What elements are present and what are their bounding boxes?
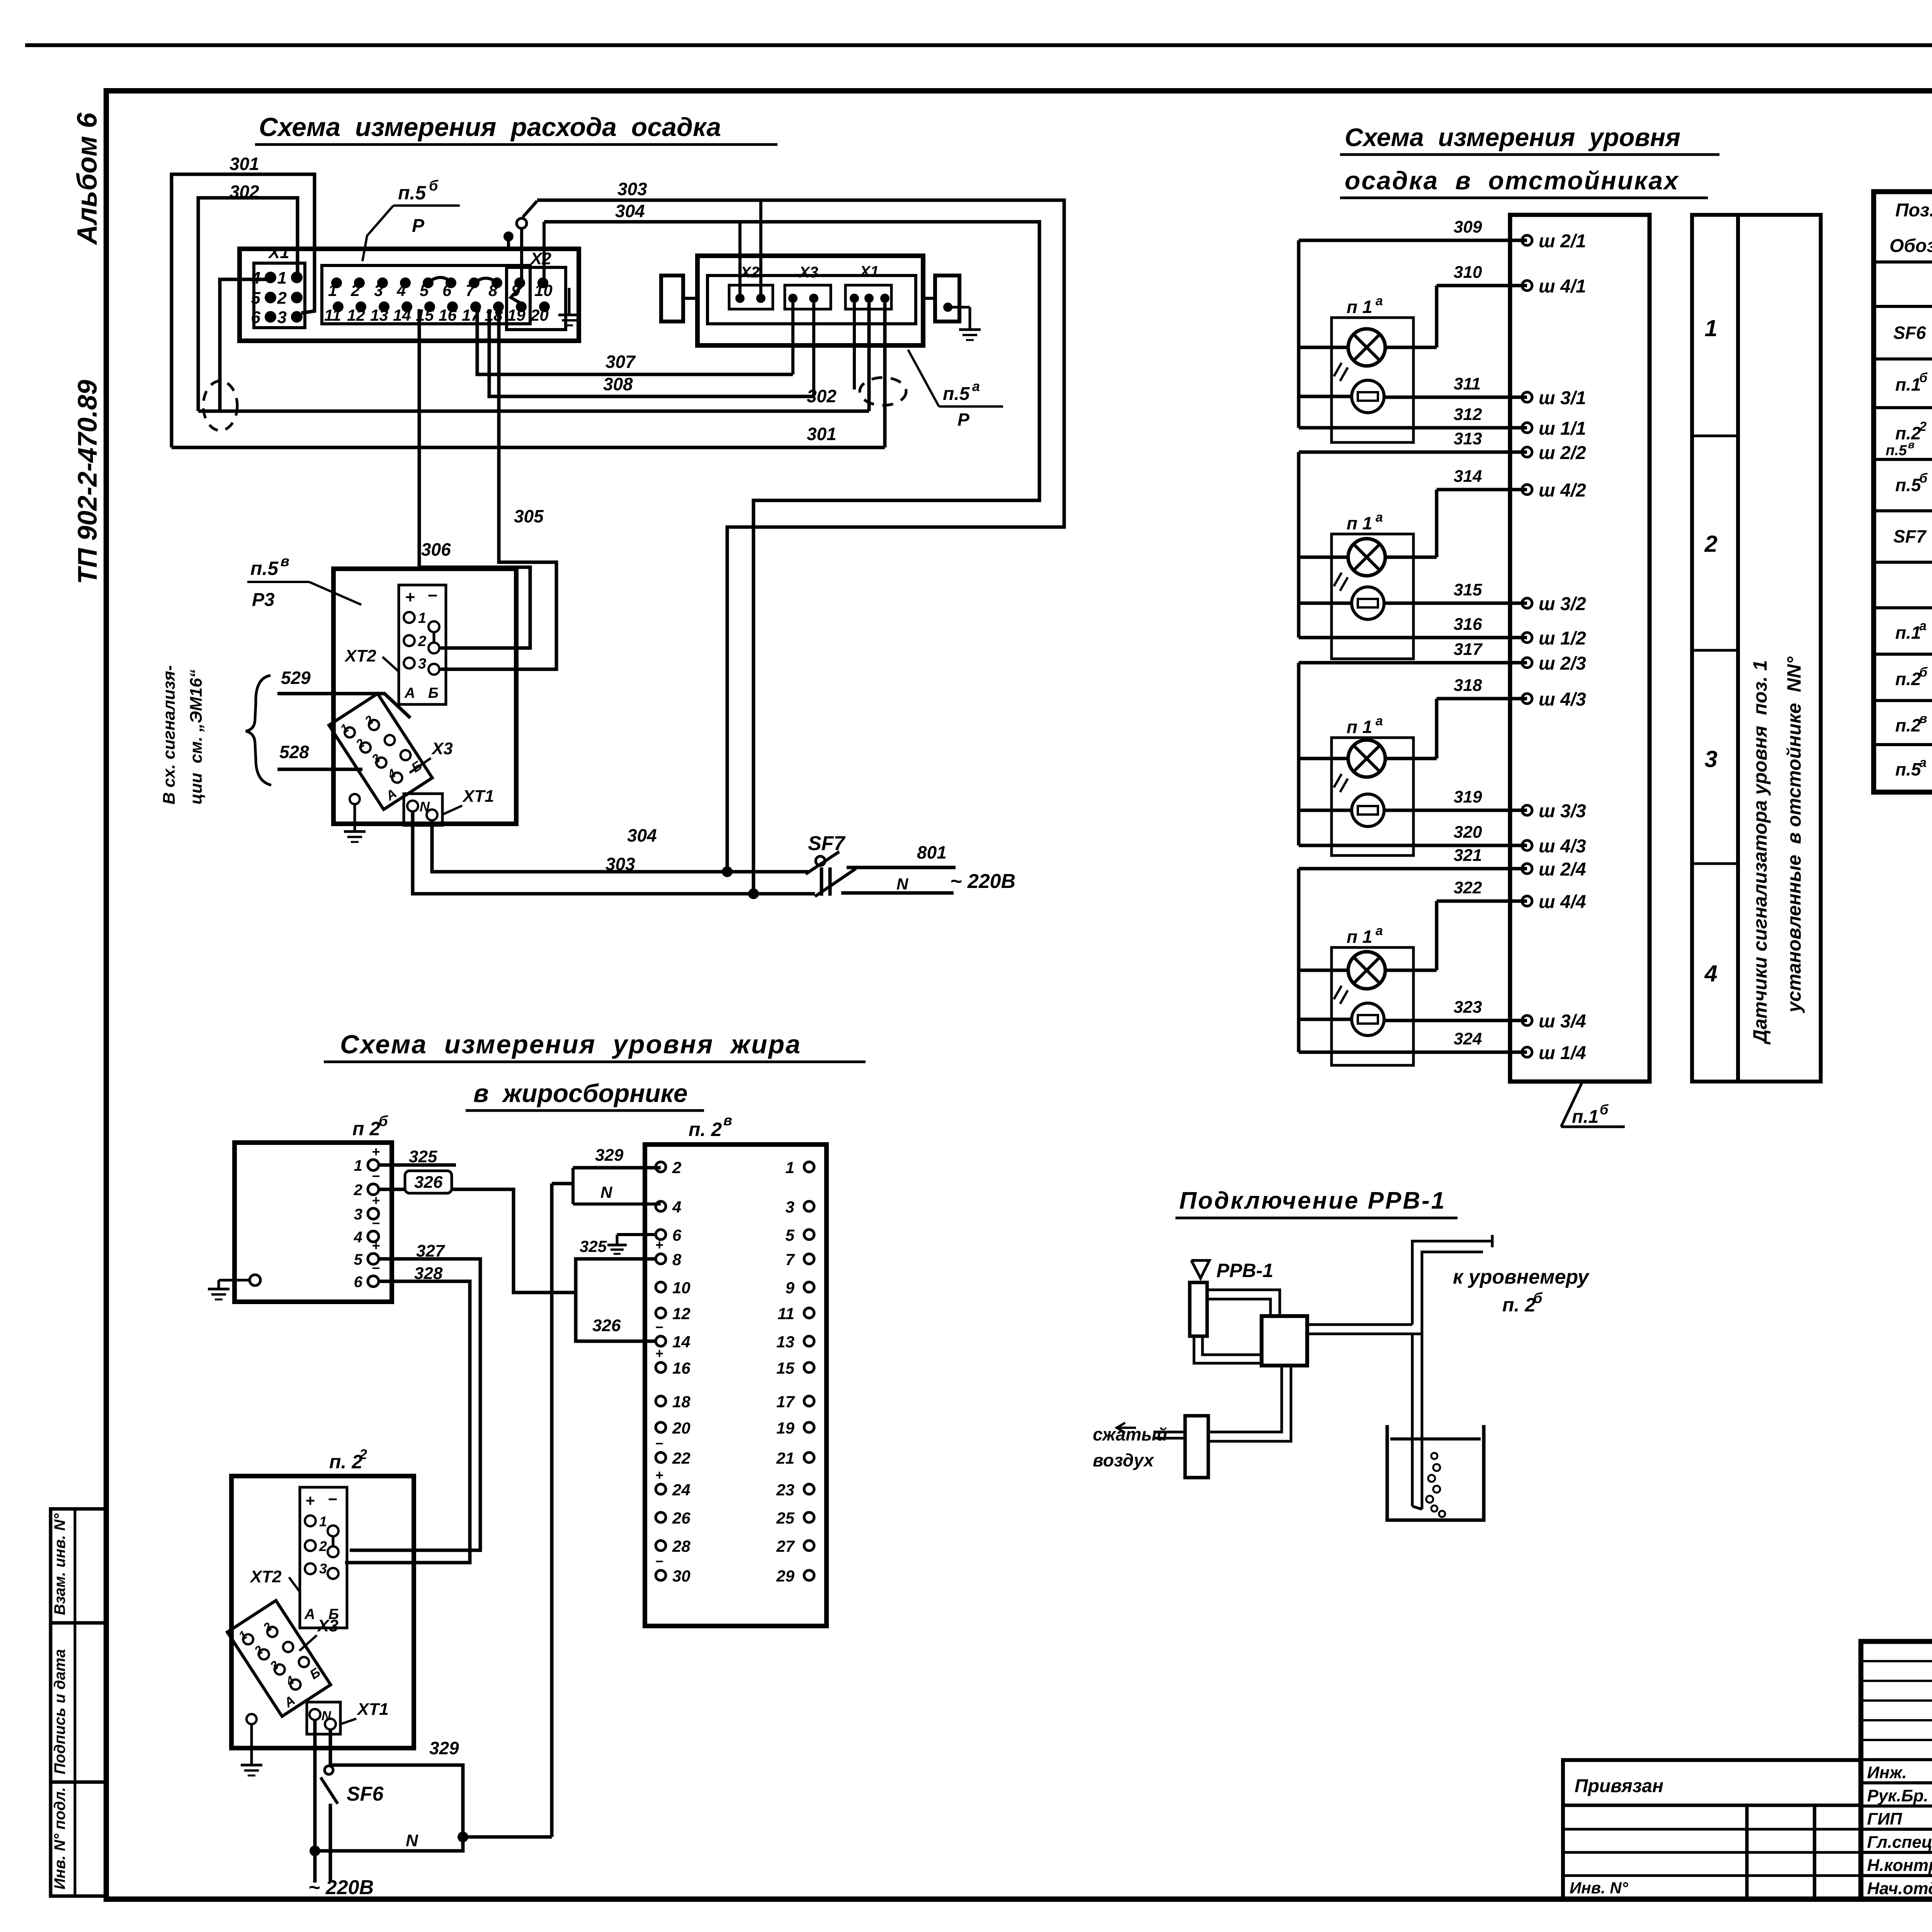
RRV-1 body bbox=[1190, 1282, 1207, 1336]
svg-text:329: 329 bbox=[429, 1738, 459, 1758]
lamp HL4 bbox=[1334, 952, 1385, 1004]
block p.2-2 body bbox=[231, 1446, 414, 1748]
svg-text:3: 3 bbox=[418, 656, 426, 672]
svg-text:установленные в отстойнике N: установленные в отстойнике NN° bbox=[1783, 656, 1805, 1014]
svg-text:3: 3 bbox=[374, 281, 383, 299]
svg-text:N: N bbox=[896, 875, 909, 893]
svg-text:б: б bbox=[1919, 471, 1928, 486]
svg-text:309: 309 bbox=[1454, 218, 1482, 236]
svg-text:529: 529 bbox=[281, 668, 311, 688]
svg-text:ш 3/4: ш 3/4 bbox=[1539, 1011, 1586, 1032]
wire 301 label bbox=[230, 154, 259, 174]
table row п.1б bbox=[1895, 363, 1932, 406]
brace to signal circuits bbox=[246, 675, 271, 785]
wire 529 bbox=[277, 668, 410, 718]
svg-text:313: 313 bbox=[1454, 429, 1482, 448]
connector X1 (right group) bbox=[845, 263, 891, 309]
svg-text:+: + bbox=[655, 1237, 663, 1253]
svg-text:4: 4 bbox=[672, 1198, 681, 1216]
svg-text:16: 16 bbox=[439, 306, 457, 324]
svg-text:ш 2/2: ш 2/2 bbox=[1539, 443, 1586, 463]
svg-text:323: 323 bbox=[1454, 998, 1482, 1017]
binding table bbox=[1563, 1760, 1861, 1899]
wire N box bbox=[573, 1168, 661, 1204]
svg-text:2: 2 bbox=[672, 1158, 681, 1177]
svg-text:+: + bbox=[405, 588, 415, 607]
svg-text:Б: Б bbox=[428, 685, 439, 701]
svg-text:303: 303 bbox=[605, 854, 635, 874]
svg-text:ш 1/2: ш 1/2 bbox=[1539, 628, 1586, 649]
wire 301 bbox=[172, 174, 885, 447]
level sensor unit p.1a #2 bbox=[1332, 510, 1413, 659]
svg-text:9: 9 bbox=[786, 1279, 795, 1297]
svg-text:315: 315 bbox=[1454, 580, 1482, 599]
svg-text:+: + bbox=[655, 1345, 663, 1361]
svg-text:воздух: воздух bbox=[1093, 1450, 1155, 1470]
wire 329 to p.2v bbox=[552, 1146, 661, 1837]
margin text ТП 902-2-470.89 bbox=[72, 380, 102, 584]
sensor element R4 bbox=[1352, 1003, 1384, 1036]
svg-text:317: 317 bbox=[1454, 640, 1483, 659]
table row п.5б bbox=[1895, 464, 1932, 507]
svg-text:SF6: SF6 bbox=[347, 1783, 384, 1805]
svg-text:324: 324 bbox=[1454, 1029, 1482, 1048]
svg-text:5: 5 bbox=[251, 289, 261, 308]
p.2v terminals bbox=[655, 1158, 814, 1585]
wire 325 stub bbox=[379, 1147, 456, 1166]
svg-text:Схема измерения расхода оса: Схема измерения расхода осадка bbox=[259, 112, 721, 142]
unit 2 wiring bbox=[1299, 452, 1527, 638]
svg-text:4: 4 bbox=[354, 1229, 362, 1246]
block P2b body bbox=[235, 1113, 392, 1302]
label XT2 (p.5v) bbox=[344, 646, 399, 672]
svg-text:6: 6 bbox=[442, 281, 452, 299]
svg-text:12: 12 bbox=[347, 306, 365, 324]
svg-text:а: а bbox=[1376, 714, 1383, 728]
wire 302 bbox=[198, 198, 869, 411]
svg-text:3: 3 bbox=[786, 1198, 794, 1216]
label p.5v / R3 bbox=[247, 553, 361, 610]
svg-text:ш 4/3: ш 4/3 bbox=[1539, 689, 1586, 710]
label XT1 (p.5v) bbox=[442, 787, 494, 815]
svg-text:2: 2 bbox=[418, 633, 426, 650]
svg-text:в жиросборнике: в жиросборнике bbox=[473, 1079, 688, 1107]
table row п.22 bbox=[1895, 412, 1932, 455]
svg-text:SF6: SF6 bbox=[1893, 323, 1926, 343]
sensor element R3 bbox=[1352, 794, 1384, 827]
svg-text:в: в bbox=[281, 553, 289, 570]
wire 328 bbox=[345, 1264, 470, 1563]
svg-text:а: а bbox=[1919, 755, 1927, 770]
svg-text:20: 20 bbox=[672, 1419, 690, 1437]
note text В сх. сигнализации bbox=[160, 665, 206, 805]
lamp HL1 bbox=[1334, 329, 1385, 381]
svg-text:X3: X3 bbox=[316, 1616, 338, 1635]
X1 right dropper bbox=[853, 303, 856, 389]
svg-text:14: 14 bbox=[672, 1333, 690, 1351]
tank number strip bbox=[1692, 215, 1738, 1082]
label X3 (p.5v) bbox=[410, 739, 453, 773]
svg-text:801: 801 bbox=[917, 842, 947, 862]
flange left bbox=[661, 276, 697, 321]
svg-text:осадка в отстойниках: осадка в отстойниках bbox=[1345, 166, 1679, 195]
wire 303 source circle bbox=[517, 218, 527, 283]
svg-text:2: 2 bbox=[319, 1538, 327, 1554]
margin label Подпись и дата bbox=[51, 1649, 68, 1774]
svg-text:п. 2: п. 2 bbox=[1502, 1294, 1536, 1316]
svg-text:Привязан: Привязан bbox=[1575, 1776, 1663, 1796]
svg-text:+: + bbox=[655, 1467, 663, 1483]
svg-text:3: 3 bbox=[277, 308, 287, 327]
svg-text:ХТ2: ХТ2 bbox=[344, 646, 376, 665]
svg-text:14: 14 bbox=[393, 306, 411, 324]
margin text Альбом 6 bbox=[72, 112, 103, 245]
svg-text:1: 1 bbox=[328, 281, 337, 299]
svg-text:16: 16 bbox=[672, 1359, 690, 1377]
svg-text:Гл.спец.: Гл.спец. bbox=[1867, 1833, 1932, 1852]
svg-text:Инв. N° подл.: Инв. N° подл. bbox=[51, 1787, 68, 1889]
terminal XT1 (p.2-2) bbox=[307, 1702, 340, 1734]
wire 307 bbox=[477, 303, 793, 374]
svg-text:29: 29 bbox=[776, 1567, 794, 1585]
svg-text:26: 26 bbox=[672, 1509, 690, 1527]
block p.5v body bbox=[333, 569, 516, 824]
svg-text:а: а bbox=[1376, 923, 1383, 938]
svg-text:2: 2 bbox=[350, 281, 360, 299]
sheet top rule bbox=[25, 43, 1932, 47]
block p.2v body bbox=[645, 1112, 827, 1626]
svg-text:5: 5 bbox=[354, 1251, 363, 1268]
svg-text:п 1: п 1 bbox=[1347, 927, 1372, 947]
title block grid bbox=[1861, 1641, 1932, 1899]
table row SF7 bbox=[1893, 515, 1932, 558]
svg-text:SF7: SF7 bbox=[808, 832, 845, 855]
wire XT1 left down bbox=[310, 1720, 320, 1883]
wire 305 bbox=[440, 309, 556, 669]
svg-text:ш 1/1: ш 1/1 bbox=[1539, 418, 1586, 439]
signature rows bbox=[1867, 1762, 1932, 1898]
svg-text:Подключение РРВ-1: Подключение РРВ-1 bbox=[1179, 1187, 1446, 1214]
svg-text:+: + bbox=[372, 1144, 380, 1160]
svg-text:п.2: п.2 bbox=[1895, 715, 1921, 735]
svg-text:Р: Р bbox=[412, 216, 425, 236]
svg-text:27: 27 bbox=[776, 1537, 795, 1555]
table row п.5а bbox=[1895, 748, 1932, 790]
wire number labels 309-324 bbox=[1454, 218, 1483, 1048]
connector X3 (p.2-2) rotated bbox=[227, 1600, 330, 1716]
wire to terminal 6 with ground bbox=[580, 1235, 656, 1255]
table row SF6 bbox=[1893, 311, 1932, 354]
title block outer bbox=[1861, 1641, 1932, 1899]
wire 303 bbox=[523, 179, 1064, 872]
sensor element R2 bbox=[1352, 587, 1384, 619]
P2b terminals bbox=[354, 1144, 380, 1291]
svg-text:6: 6 bbox=[354, 1274, 363, 1291]
table row п.1а bbox=[1895, 611, 1932, 653]
svg-text:1: 1 bbox=[319, 1514, 327, 1529]
wire 528 bbox=[277, 742, 362, 769]
svg-text:329: 329 bbox=[595, 1146, 624, 1165]
svg-text:319: 319 bbox=[1454, 787, 1482, 806]
svg-text:~ 220В: ~ 220В bbox=[308, 1876, 374, 1899]
svg-text:б: б bbox=[1533, 1290, 1543, 1306]
svg-text:ш 3/2: ш 3/2 bbox=[1539, 594, 1586, 614]
svg-text:+: + bbox=[372, 1192, 380, 1208]
svg-text:528: 528 bbox=[279, 742, 309, 762]
svg-text:п.5: п.5 bbox=[250, 558, 279, 579]
svg-text:304: 304 bbox=[615, 201, 645, 221]
level sensor unit p.1a #3 bbox=[1332, 714, 1413, 855]
wire 326 bbox=[379, 1171, 576, 1293]
svg-text:1: 1 bbox=[786, 1158, 794, 1177]
svg-text:301: 301 bbox=[807, 424, 837, 444]
svg-text:б: б bbox=[1919, 665, 1928, 680]
title: Схема измерения расхода осадка bbox=[255, 112, 777, 145]
table row п.2в bbox=[1895, 704, 1932, 746]
svg-text:15: 15 bbox=[776, 1359, 794, 1377]
svg-text:5: 5 bbox=[420, 281, 429, 299]
terminal block X1 (left) bbox=[254, 243, 305, 328]
svg-text:10: 10 bbox=[534, 281, 553, 299]
svg-text:п 1: п 1 bbox=[1347, 513, 1372, 533]
X1 pins bbox=[251, 269, 303, 327]
svg-text:1: 1 bbox=[418, 610, 426, 626]
svg-text:304: 304 bbox=[627, 825, 657, 845]
cable marker ellipse right bbox=[860, 378, 906, 405]
svg-text:11: 11 bbox=[777, 1304, 794, 1323]
svg-text:326: 326 bbox=[592, 1316, 621, 1335]
svg-text:Обозн.: Обозн. bbox=[1889, 236, 1932, 256]
svg-text:12: 12 bbox=[672, 1304, 690, 1323]
terminal box p.1b bbox=[1510, 215, 1650, 1082]
svg-text:п.2: п.2 bbox=[1895, 669, 1921, 689]
pipe inlet to box bbox=[1208, 1366, 1291, 1441]
p.1b terminals bbox=[1522, 231, 1586, 1063]
air pipe riser bbox=[1412, 1235, 1492, 1509]
flange right bbox=[923, 276, 959, 321]
svg-text:8: 8 bbox=[672, 1250, 682, 1269]
title: Схема измерения уровня жира bbox=[324, 1030, 866, 1111]
svg-text:Инж.: Инж. bbox=[1867, 1763, 1907, 1782]
svg-text:301: 301 bbox=[230, 154, 259, 174]
svg-text:А: А bbox=[304, 1606, 315, 1622]
svg-text:10: 10 bbox=[672, 1279, 690, 1297]
margin label Инв.№ подл. bbox=[51, 1787, 68, 1889]
svg-text:X3: X3 bbox=[799, 264, 818, 281]
svg-text:13: 13 bbox=[776, 1333, 794, 1351]
svg-text:326: 326 bbox=[414, 1173, 443, 1192]
label p.5b / P bbox=[362, 178, 460, 261]
svg-text:X2: X2 bbox=[529, 249, 551, 268]
svg-text:Нач.отд.: Нач.отд. bbox=[1867, 1879, 1932, 1898]
svg-text:30: 30 bbox=[672, 1567, 690, 1585]
ground p.5v bbox=[344, 794, 366, 842]
svg-text:п.5: п.5 bbox=[1895, 475, 1922, 495]
parts table grid bbox=[1874, 192, 1932, 792]
svg-text:б: б bbox=[379, 1113, 388, 1129]
svg-text:320: 320 bbox=[1454, 823, 1482, 842]
svg-text:308: 308 bbox=[603, 374, 633, 394]
table row p.2 extra pos bbox=[1886, 439, 1915, 459]
svg-text:311: 311 bbox=[1454, 374, 1481, 393]
svg-text:А: А bbox=[404, 685, 415, 701]
svg-text:Датчики сигнализатора уровня: Датчики сигнализатора уровня поз. 1 bbox=[1749, 660, 1771, 1045]
svg-text:к уровнемеру: к уровнемеру bbox=[1453, 1266, 1590, 1288]
funnel RRV-1 bbox=[1191, 1260, 1273, 1281]
svg-text:8: 8 bbox=[488, 281, 498, 299]
wire SF6 down to 220V bbox=[308, 1851, 374, 1899]
wire 308 bbox=[489, 303, 814, 396]
svg-text:2: 2 bbox=[359, 1446, 367, 1462]
unit 3 wiring bbox=[1299, 663, 1527, 845]
svg-text:1: 1 bbox=[1704, 315, 1717, 341]
pin jumper hooks bbox=[429, 277, 526, 306]
label к уровнемеру bbox=[1453, 1266, 1590, 1316]
title: Подключение РРВ-1 bbox=[1175, 1187, 1458, 1218]
svg-text:19: 19 bbox=[507, 306, 526, 324]
svg-text:28: 28 bbox=[672, 1537, 690, 1555]
svg-text:3: 3 bbox=[1704, 746, 1717, 772]
svg-text:ХТ1: ХТ1 bbox=[462, 787, 494, 806]
svg-text:SF7: SF7 bbox=[1893, 526, 1927, 546]
wire 327 bbox=[350, 1242, 480, 1550]
svg-text:24: 24 bbox=[672, 1481, 690, 1499]
table row п.2б bbox=[1895, 658, 1932, 700]
svg-text:Р: Р bbox=[957, 410, 969, 430]
svg-text:4: 4 bbox=[396, 281, 406, 299]
terminal strip XT2 (p.5v) bbox=[399, 585, 446, 704]
title: Схема измерения уровня осадка в отстойниках bbox=[1340, 123, 1719, 198]
lamp HL3 bbox=[1334, 740, 1385, 792]
sensors note strip bbox=[1738, 215, 1821, 1082]
svg-text:п.1: п.1 bbox=[1895, 622, 1921, 643]
svg-text:п. 2: п. 2 bbox=[329, 1451, 362, 1473]
svg-text:п 2: п 2 bbox=[352, 1118, 380, 1139]
svg-text:2: 2 bbox=[1919, 419, 1927, 434]
lamp HL2 bbox=[1334, 539, 1385, 591]
pipe RRV bottom loop bbox=[1194, 1336, 1262, 1363]
svg-text:ш 1/4: ш 1/4 bbox=[1539, 1043, 1586, 1063]
wire X1 pin4 to cable bbox=[220, 279, 270, 411]
svg-text:Н.контр.: Н.контр. bbox=[1867, 1856, 1932, 1875]
device box p.5b enclosure bbox=[240, 249, 579, 341]
wire 304 bbox=[503, 201, 1039, 894]
svg-text:Поз.: Поз. bbox=[1895, 200, 1932, 221]
svg-text:−: − bbox=[655, 1435, 663, 1451]
svg-text:б: б bbox=[1600, 1102, 1609, 1117]
svg-text:3: 3 bbox=[354, 1206, 362, 1223]
svg-text:1: 1 bbox=[354, 1157, 362, 1174]
binding labels bbox=[1570, 1776, 1663, 1897]
svg-text:в: в bbox=[723, 1112, 732, 1129]
svg-text:ш 4/4: ш 4/4 bbox=[1539, 892, 1586, 912]
wire 303 bottom run bbox=[413, 811, 815, 899]
svg-text:ш 3/1: ш 3/1 bbox=[1539, 388, 1586, 408]
svg-text:б: б bbox=[1919, 371, 1928, 385]
svg-text:В сх. сигнализя-: В сх. сигнализя- bbox=[160, 665, 179, 805]
svg-text:X2: X2 bbox=[740, 264, 760, 281]
margin label Взам.инв.№ bbox=[51, 1513, 68, 1615]
svg-text:сжатый: сжатый bbox=[1093, 1424, 1167, 1444]
connector P p.5b body bbox=[322, 265, 530, 324]
svg-text:а: а bbox=[1919, 619, 1927, 633]
svg-text:318: 318 bbox=[1454, 676, 1482, 695]
svg-text:п.5: п.5 bbox=[1886, 442, 1907, 459]
svg-text:N: N bbox=[600, 1183, 613, 1201]
svg-text:Подпись и дата: Подпись и дата bbox=[51, 1649, 68, 1774]
sensor group inner bar bbox=[707, 276, 916, 324]
svg-text:321: 321 bbox=[1454, 846, 1482, 865]
svg-text:X1: X1 bbox=[267, 243, 289, 262]
svg-text:п. 2: п. 2 bbox=[689, 1119, 722, 1140]
svg-text:ш 2/1: ш 2/1 bbox=[1539, 231, 1586, 252]
svg-text:−: − bbox=[655, 1553, 663, 1569]
svg-text:322: 322 bbox=[1454, 878, 1482, 897]
svg-text:18: 18 bbox=[672, 1393, 690, 1411]
X2 right risers bbox=[740, 200, 761, 298]
svg-text:312: 312 bbox=[1454, 405, 1482, 424]
svg-text:21: 21 bbox=[776, 1449, 794, 1467]
svg-text:Р3: Р3 bbox=[252, 590, 275, 610]
svg-text:−: − bbox=[372, 1168, 380, 1184]
svg-text:314: 314 bbox=[1454, 467, 1482, 486]
air bubbles bbox=[1426, 1453, 1445, 1517]
label сжатый воздух bbox=[1093, 1424, 1167, 1470]
svg-text:+: + bbox=[305, 1492, 315, 1510]
svg-text:ш 4/1: ш 4/1 bbox=[1539, 276, 1586, 297]
svg-text:2: 2 bbox=[354, 1182, 362, 1199]
svg-text:7: 7 bbox=[786, 1250, 795, 1269]
svg-text:ТП 902-2-470.89: ТП 902-2-470.89 bbox=[72, 380, 102, 584]
connector X2 on device box bbox=[507, 267, 566, 330]
svg-text:а: а bbox=[1376, 294, 1383, 308]
svg-text:306: 306 bbox=[421, 539, 451, 560]
svg-text:п.1: п.1 bbox=[1572, 1107, 1599, 1127]
svg-text:2: 2 bbox=[277, 289, 287, 308]
svg-text:ш 2/3: ш 2/3 bbox=[1539, 653, 1586, 674]
svg-text:Инв. N°: Инв. N° bbox=[1570, 1879, 1629, 1897]
parts table header bbox=[1889, 200, 1932, 256]
svg-text:325: 325 bbox=[580, 1237, 607, 1255]
svg-text:~ 220В: ~ 220В bbox=[950, 870, 1015, 893]
svg-text:−: − bbox=[372, 1260, 380, 1276]
svg-text:23: 23 bbox=[776, 1481, 794, 1499]
svg-text:а: а bbox=[972, 378, 980, 394]
svg-text:РРВ-1: РРВ-1 bbox=[1216, 1260, 1273, 1281]
svg-text:ГИП: ГИП bbox=[1867, 1810, 1903, 1828]
svg-text:+: + bbox=[372, 1238, 380, 1253]
svg-text:−: − bbox=[328, 1490, 337, 1508]
svg-text:5: 5 bbox=[786, 1226, 795, 1244]
svg-text:2: 2 bbox=[1704, 531, 1717, 557]
cable marker ellipse left bbox=[203, 381, 237, 430]
svg-text:303: 303 bbox=[617, 179, 647, 199]
svg-text:п.5: п.5 bbox=[943, 384, 970, 404]
svg-text:310: 310 bbox=[1454, 263, 1482, 282]
connector X3 (p.5v) rotated bbox=[329, 694, 432, 810]
svg-text:Рук.Бр.: Рук.Бр. bbox=[1867, 1786, 1929, 1805]
svg-text:7: 7 bbox=[466, 281, 475, 299]
water tank bbox=[1387, 1425, 1484, 1520]
svg-text:316: 316 bbox=[1454, 615, 1482, 634]
terminal strip XT2 (p.2-2) bbox=[300, 1487, 347, 1628]
svg-text:22: 22 bbox=[672, 1449, 690, 1467]
device box ground bbox=[558, 288, 580, 325]
svg-text:13: 13 bbox=[370, 306, 388, 324]
svg-text:ХТ1: ХТ1 bbox=[356, 1700, 389, 1719]
svg-text:ш 4/3: ш 4/3 bbox=[1539, 836, 1586, 857]
connector X3 (right group) bbox=[785, 264, 831, 309]
